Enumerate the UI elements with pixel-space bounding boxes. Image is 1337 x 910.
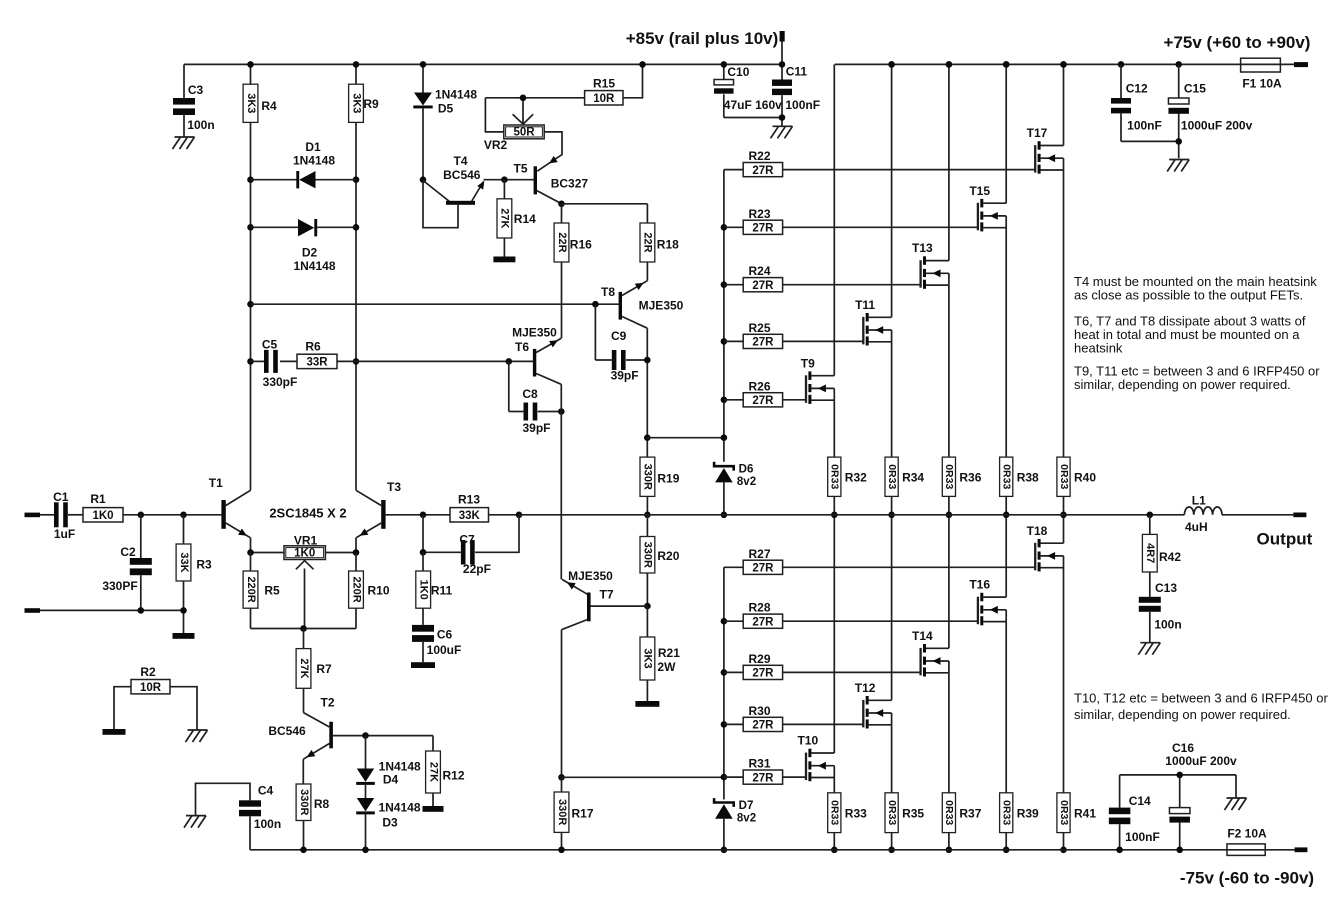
node lower bus junction bbox=[721, 618, 728, 625]
node +85v supply entry stub bbox=[780, 31, 785, 42]
node lower bus junction bbox=[721, 721, 728, 728]
svg-text:1K0: 1K0 bbox=[418, 580, 430, 600]
node C5 row left junction bbox=[247, 358, 254, 365]
node R13 right junction bbox=[516, 512, 523, 519]
capacitor C14 bbox=[1119, 775, 1121, 808]
svg-text:27R: 27R bbox=[752, 772, 774, 784]
wire R9 column lower bbox=[355, 122, 357, 490]
node +75 rail junction bbox=[1003, 61, 1010, 68]
svg-text:R14: R14 bbox=[514, 212, 536, 226]
node C16 top junction bbox=[1176, 772, 1183, 779]
svg-text:100nF: 100nF bbox=[785, 98, 820, 112]
node VR1 wiper junction bbox=[300, 625, 307, 632]
svg-text:33K: 33K bbox=[178, 552, 190, 572]
node C16 bottom junction bbox=[1176, 847, 1183, 854]
svg-text:D1: D1 bbox=[305, 140, 321, 154]
resistor R16 bbox=[561, 204, 563, 223]
svg-text:R11: R11 bbox=[431, 584, 453, 598]
node R9 rail junction bbox=[353, 61, 360, 68]
svg-text:T6: T6 bbox=[515, 340, 529, 354]
node +75 rail junction bbox=[946, 61, 953, 68]
svg-text:similar, depending on power re: similar, depending on power required. bbox=[1074, 707, 1291, 722]
node +75 rail junction bbox=[1175, 61, 1182, 68]
svg-text:330R: 330R bbox=[642, 464, 654, 490]
svg-text:R4: R4 bbox=[261, 99, 277, 113]
svg-text:R15: R15 bbox=[593, 77, 615, 91]
svg-text:C8: C8 bbox=[522, 387, 538, 401]
svg-text:3K3: 3K3 bbox=[245, 93, 257, 113]
svg-text:C10: C10 bbox=[727, 65, 749, 79]
svg-text:1N4148: 1N4148 bbox=[378, 801, 420, 815]
svg-text:R32: R32 bbox=[845, 471, 867, 485]
resistor R41 bbox=[1057, 793, 1070, 833]
svg-text:R35: R35 bbox=[902, 807, 924, 821]
svg-text:R7: R7 bbox=[316, 662, 332, 676]
node D1 right junction bbox=[353, 176, 360, 183]
capacitor C11 bbox=[781, 64, 783, 79]
svg-text:47uF 160v: 47uF 160v bbox=[724, 98, 782, 112]
potentiometer VR1 bbox=[251, 552, 285, 554]
fuse F1 bbox=[1241, 63, 1294, 65]
svg-text:C14: C14 bbox=[1129, 794, 1151, 808]
resistor R27 bbox=[724, 566, 743, 568]
svg-text:0R33: 0R33 bbox=[886, 800, 898, 825]
wire emitter degeneration row bbox=[251, 628, 357, 630]
node +75 rail junction bbox=[1118, 61, 1125, 68]
svg-text:1K0: 1K0 bbox=[92, 510, 113, 522]
svg-text:C5: C5 bbox=[262, 338, 278, 352]
node C9 right junction bbox=[644, 357, 651, 364]
resistor R1 bbox=[83, 508, 123, 522]
wire R18 to T8 emitter bbox=[646, 262, 648, 281]
node D6 bottom junction bbox=[721, 512, 728, 519]
resistor R18 bbox=[640, 223, 655, 262]
resistor R6 bbox=[297, 354, 337, 368]
svg-text:C3: C3 bbox=[188, 83, 204, 97]
wire R13 to output rail bbox=[489, 514, 520, 516]
wire T7 collector column bbox=[561, 630, 563, 778]
zener D7 bbox=[714, 798, 734, 807]
resistor R35 bbox=[885, 793, 898, 833]
resistor R9 bbox=[349, 84, 364, 122]
resistor R34 bbox=[885, 457, 898, 496]
svg-text:1K0: 1K0 bbox=[294, 547, 315, 559]
node R17 top junction bbox=[558, 774, 565, 781]
capacitor C2 bbox=[140, 515, 142, 558]
svg-text:1N4148: 1N4148 bbox=[379, 760, 421, 774]
node R38 bottom junction bbox=[1003, 512, 1010, 519]
svg-text:1000uF 200v: 1000uF 200v bbox=[1181, 119, 1253, 133]
svg-text:1000uF 200v: 1000uF 200v bbox=[1165, 754, 1237, 768]
svg-text:0R33: 0R33 bbox=[1058, 464, 1070, 489]
wire T14 drain column bbox=[948, 515, 950, 649]
svg-text:+75v (+60 to +90v): +75v (+60 to +90v) bbox=[1164, 33, 1311, 52]
wire T6 collector column bbox=[560, 384, 562, 579]
svg-text:100n: 100n bbox=[254, 817, 281, 831]
node D2 right junction bbox=[353, 224, 360, 231]
svg-text:C12: C12 bbox=[1126, 82, 1148, 96]
capacitor C8 bbox=[506, 358, 513, 365]
node -75v terminal stub bbox=[1295, 847, 1308, 852]
wire R23 to T15 gate bbox=[783, 226, 978, 228]
node T2 base junction bbox=[362, 732, 369, 739]
svg-text:3K3: 3K3 bbox=[350, 93, 362, 113]
node R34 bottom junction bbox=[888, 512, 895, 519]
resistor R36 bbox=[942, 457, 955, 496]
node upper bus junction bbox=[721, 281, 728, 288]
transistor T8 bbox=[619, 292, 622, 320]
node R32 bottom junction bbox=[831, 512, 838, 519]
wire VR2 top bbox=[485, 97, 584, 99]
svg-text:27R: 27R bbox=[752, 395, 774, 407]
svg-text:R42: R42 bbox=[1159, 550, 1181, 564]
svg-text:R24: R24 bbox=[748, 264, 770, 278]
node +75 rail junction bbox=[1060, 61, 1067, 68]
ground C13 bbox=[1138, 643, 1160, 655]
resistor R33 bbox=[828, 793, 841, 833]
mosfet T12 bbox=[862, 700, 864, 728]
svg-text:100n: 100n bbox=[1154, 618, 1181, 632]
svg-text:T15: T15 bbox=[969, 184, 990, 198]
svg-text:C7: C7 bbox=[459, 533, 475, 547]
diode D5 bbox=[422, 64, 424, 92]
mosfet T11 bbox=[862, 317, 864, 345]
mosfet T18 bbox=[1034, 543, 1036, 571]
node C12 C15 junction bbox=[1175, 138, 1182, 145]
resistor R21 bbox=[646, 606, 648, 637]
wire T16 drain column bbox=[1005, 515, 1007, 597]
node input terminal bbox=[25, 513, 41, 518]
resistor R2 bbox=[131, 680, 170, 694]
svg-text:100uF: 100uF bbox=[427, 643, 462, 657]
wire lower bus feed row bbox=[562, 776, 724, 778]
svg-text:F1 10A: F1 10A bbox=[1242, 77, 1282, 91]
svg-text:C6: C6 bbox=[437, 628, 453, 642]
svg-text:0R33: 0R33 bbox=[1058, 800, 1070, 825]
wire R31 to T10 gate bbox=[783, 776, 806, 778]
resistor R15 bbox=[585, 91, 623, 105]
wire R29 to T14 gate bbox=[783, 671, 921, 673]
svg-text:R21: R21 bbox=[658, 646, 680, 660]
svg-text:0R33: 0R33 bbox=[829, 800, 841, 825]
svg-text:27K: 27K bbox=[298, 658, 310, 678]
node C11 rail junction bbox=[779, 61, 786, 68]
svg-text:D4: D4 bbox=[383, 773, 399, 787]
svg-text:R33: R33 bbox=[845, 807, 867, 821]
svg-text:R17: R17 bbox=[571, 807, 593, 821]
resistor R20 bbox=[646, 515, 648, 537]
resistor R29 bbox=[724, 671, 743, 673]
node +75 rail junction bbox=[888, 61, 895, 68]
diode D4 bbox=[365, 736, 367, 769]
capacitor C16 bbox=[1120, 774, 1236, 776]
svg-text:T10: T10 bbox=[797, 734, 818, 748]
transistor T1 bbox=[221, 500, 225, 529]
svg-text:T10, T12 etc = between 3 and 6: T10, T12 etc = between 3 and 6 IRFP450 o… bbox=[1074, 691, 1328, 706]
svg-text:T3: T3 bbox=[387, 480, 401, 494]
capacitor C7 bbox=[422, 515, 424, 553]
wire T3 base row bbox=[386, 514, 450, 516]
wire R4 column lower bbox=[250, 122, 252, 490]
svg-text:F2 10A: F2 10A bbox=[1227, 827, 1267, 841]
node R37 bottom junction bbox=[946, 847, 953, 854]
svg-text:R40: R40 bbox=[1074, 471, 1096, 485]
resistor R26 bbox=[724, 399, 743, 401]
wire R9 column bbox=[355, 64, 357, 84]
resistor R4 bbox=[243, 84, 258, 122]
capacitor C4 bbox=[184, 816, 206, 828]
wire T13 drain column bbox=[948, 64, 950, 260]
wire T9 drain column bbox=[833, 64, 835, 375]
node output terminal stub bbox=[1293, 513, 1306, 518]
resistor R37 bbox=[942, 793, 955, 833]
node R39 bottom junction bbox=[1003, 847, 1010, 854]
node C2 junction bbox=[138, 512, 145, 519]
node C10 C11 ground junction bbox=[779, 114, 786, 121]
node lower bus junction bbox=[721, 669, 728, 676]
resistor R14 bbox=[501, 176, 508, 183]
wire R2 left bbox=[114, 687, 131, 729]
mosfet T15 bbox=[977, 203, 979, 231]
svg-text:C13: C13 bbox=[1155, 581, 1177, 595]
svg-text:R16: R16 bbox=[570, 238, 592, 252]
node R3 junction bbox=[180, 512, 187, 519]
svg-text:C1: C1 bbox=[53, 490, 69, 504]
svg-text:BC327: BC327 bbox=[551, 177, 589, 191]
node upper bus junction bbox=[721, 338, 728, 345]
svg-text:T2: T2 bbox=[320, 696, 334, 710]
wire T15 source column bbox=[1005, 216, 1007, 457]
svg-text:R13: R13 bbox=[458, 493, 480, 507]
inductor L1 bbox=[1184, 507, 1222, 515]
svg-text:R38: R38 bbox=[1017, 471, 1039, 485]
capacitor C3 bbox=[183, 64, 185, 98]
svg-text:as close as possible to the ou: as close as possible to the output FETs. bbox=[1074, 288, 1303, 303]
wiper arrow VR1 bbox=[296, 560, 305, 569]
svg-text:1N4148: 1N4148 bbox=[293, 259, 335, 273]
wire +75v top rail bbox=[835, 63, 1241, 65]
svg-text:1N4148: 1N4148 bbox=[293, 154, 335, 168]
resistor R8 bbox=[296, 784, 311, 821]
wire VAS feed row bbox=[251, 303, 619, 305]
svg-text:R28: R28 bbox=[748, 601, 770, 615]
wire T10 drain column bbox=[833, 515, 835, 753]
svg-text:220R: 220R bbox=[245, 576, 257, 602]
svg-text:T12: T12 bbox=[855, 681, 876, 695]
node C8 right junction bbox=[558, 408, 565, 415]
node C2 bottom junction bbox=[138, 607, 145, 614]
capacitor C15 bbox=[1178, 64, 1180, 98]
svg-text:1N4148: 1N4148 bbox=[435, 88, 477, 102]
svg-text:T7: T7 bbox=[599, 588, 613, 602]
wire T17 source column bbox=[1063, 158, 1065, 457]
mosfet T9 bbox=[805, 375, 807, 403]
wire -75v bottom rail bbox=[250, 849, 1227, 851]
node upper bus junction bbox=[721, 434, 728, 441]
svg-text:330pF: 330pF bbox=[263, 375, 298, 389]
wire R16 to T6 emitter bbox=[561, 262, 563, 338]
mosfet T13 bbox=[919, 260, 921, 288]
wire T13 source column bbox=[948, 273, 950, 457]
node R17 bottom junction bbox=[558, 847, 565, 854]
transistor T7 bbox=[562, 579, 588, 594]
svg-text:T8: T8 bbox=[601, 285, 615, 299]
wire lower gate bus bbox=[723, 567, 725, 799]
svg-text:MJE350: MJE350 bbox=[512, 326, 557, 340]
capacitor C12 bbox=[1120, 64, 1122, 98]
ground C16 bbox=[1235, 775, 1237, 798]
svg-text:R41: R41 bbox=[1074, 807, 1096, 821]
svg-text:-75v (-60 to -90v): -75v (-60 to -90v) bbox=[1180, 869, 1314, 888]
svg-text:R27: R27 bbox=[748, 547, 770, 561]
resistor R38 bbox=[1000, 457, 1013, 496]
svg-text:10R: 10R bbox=[140, 682, 162, 694]
svg-text:T17: T17 bbox=[1027, 126, 1048, 140]
svg-text:D6: D6 bbox=[739, 464, 754, 476]
wire R15 to rail bbox=[623, 64, 643, 97]
resistor R13 bbox=[450, 508, 489, 522]
diode D1 bbox=[251, 179, 298, 181]
node D3 bottom junction bbox=[362, 847, 369, 854]
node C10 rail junction bbox=[721, 61, 728, 68]
svg-text:R18: R18 bbox=[657, 238, 679, 252]
svg-text:8v2: 8v2 bbox=[737, 476, 756, 488]
svg-text:8v2: 8v2 bbox=[737, 813, 756, 825]
node R8 bottom junction bbox=[300, 847, 307, 854]
wire T9 source column bbox=[833, 388, 835, 457]
wire R28 to T16 gate bbox=[783, 620, 978, 622]
fuse F2 bbox=[1227, 849, 1295, 851]
svg-text:MJE350: MJE350 bbox=[568, 569, 613, 583]
svg-text:T1: T1 bbox=[209, 476, 223, 490]
svg-text:27R: 27R bbox=[752, 223, 774, 235]
svg-text:D2: D2 bbox=[302, 246, 318, 260]
svg-text:22pF: 22pF bbox=[463, 562, 491, 576]
svg-text:C11: C11 bbox=[786, 65, 808, 79]
node R4 rail junction bbox=[247, 61, 254, 68]
node D5 rail junction bbox=[420, 61, 427, 68]
svg-text:T13: T13 bbox=[912, 241, 933, 255]
transistor T5 bbox=[537, 132, 562, 171]
resistor R40 bbox=[1057, 457, 1070, 496]
svg-text:R20: R20 bbox=[657, 549, 679, 563]
ground R12 bbox=[423, 806, 444, 812]
node +75v terminal stub bbox=[1294, 62, 1308, 67]
svg-text:T11: T11 bbox=[855, 298, 875, 312]
wire T8 collector to bus feed bbox=[644, 434, 651, 441]
svg-text:T16: T16 bbox=[969, 578, 990, 592]
svg-text:D7: D7 bbox=[739, 800, 754, 812]
node R41 bottom junction bbox=[1060, 847, 1067, 854]
wire R30 to T12 gate bbox=[783, 723, 864, 725]
wire R25 to T11 gate bbox=[783, 340, 864, 342]
transistor T2 bbox=[304, 713, 330, 727]
resistor R30 bbox=[724, 723, 743, 725]
svg-text:22R: 22R bbox=[556, 232, 568, 252]
svg-text:39pF: 39pF bbox=[522, 421, 550, 435]
capacitor C6 bbox=[422, 608, 424, 625]
resistor R10 bbox=[355, 553, 357, 572]
svg-text:D5: D5 bbox=[438, 102, 454, 116]
svg-text:0R33: 0R33 bbox=[943, 800, 955, 825]
svg-text:C2: C2 bbox=[120, 545, 136, 559]
wire R26 to T9 gate bbox=[783, 399, 806, 401]
ground C3 bbox=[173, 137, 195, 149]
svg-text:R1: R1 bbox=[90, 492, 106, 506]
node R36 bottom junction bbox=[946, 512, 953, 519]
node lower bus junction bbox=[721, 774, 728, 781]
svg-text:T9: T9 bbox=[801, 356, 815, 370]
svg-text:27R: 27R bbox=[752, 165, 774, 177]
capacitor C1 bbox=[40, 514, 54, 516]
capacitor C13 bbox=[1149, 572, 1151, 597]
zener D6 bbox=[714, 462, 734, 471]
resistor R3 bbox=[183, 515, 185, 544]
node upper bus junction bbox=[721, 397, 728, 404]
wire R2 right bbox=[170, 687, 197, 730]
svg-text:R31: R31 bbox=[748, 757, 770, 771]
svg-text:33R: 33R bbox=[306, 357, 328, 369]
wire output rail right bbox=[1222, 514, 1293, 516]
node T7 base junction bbox=[644, 603, 651, 610]
capacitor C10 bbox=[723, 64, 725, 79]
svg-text:heatsink: heatsink bbox=[1074, 341, 1123, 356]
wire T11 source column bbox=[891, 330, 893, 457]
wire T12 source column bbox=[891, 713, 893, 793]
svg-text:100n: 100n bbox=[187, 118, 214, 132]
svg-text:R34: R34 bbox=[902, 471, 924, 485]
svg-text:R25: R25 bbox=[748, 321, 770, 335]
wire bottom input row bbox=[40, 609, 184, 611]
svg-text:R10: R10 bbox=[367, 584, 389, 598]
resistor R23 bbox=[724, 226, 743, 228]
node R6 row right junction bbox=[353, 358, 360, 365]
resistor R42 bbox=[1149, 515, 1151, 535]
mosfet T16 bbox=[977, 597, 979, 625]
svg-text:330R: 330R bbox=[556, 799, 568, 825]
ground R2 right bbox=[186, 730, 208, 742]
wire R27 to T18 gate bbox=[783, 566, 1036, 568]
wire T18 source column bbox=[1063, 556, 1065, 793]
ground R14 bbox=[493, 257, 515, 263]
mosfet T14 bbox=[919, 648, 921, 676]
resistor R24 bbox=[724, 284, 743, 286]
node C7 top junction bbox=[420, 512, 427, 519]
svg-text:T14: T14 bbox=[912, 629, 933, 643]
svg-text:2W: 2W bbox=[657, 660, 676, 674]
svg-text:27K: 27K bbox=[427, 762, 439, 782]
wire R22 to T17 gate bbox=[783, 169, 1036, 171]
svg-text:39pF: 39pF bbox=[611, 369, 639, 383]
svg-text:R30: R30 bbox=[748, 704, 770, 718]
capacitor C5 bbox=[251, 360, 265, 362]
capacitor C9 bbox=[594, 304, 596, 360]
svg-text:R23: R23 bbox=[748, 207, 770, 221]
potentiometer VR2 bbox=[485, 98, 503, 132]
svg-text:MJE350: MJE350 bbox=[639, 299, 684, 313]
svg-text:330R: 330R bbox=[298, 789, 310, 815]
mosfet T10 bbox=[805, 753, 807, 781]
svg-text:R6: R6 bbox=[305, 340, 321, 354]
resistor R17 bbox=[554, 792, 569, 832]
svg-text:T4: T4 bbox=[453, 154, 467, 168]
wire T17 drain column bbox=[1063, 64, 1065, 145]
wire R24 to T13 gate bbox=[783, 284, 921, 286]
svg-text:R26: R26 bbox=[748, 379, 770, 393]
node T1 emitter junction bbox=[247, 549, 254, 556]
svg-text:330PF: 330PF bbox=[102, 579, 137, 593]
svg-text:L1: L1 bbox=[1192, 494, 1206, 508]
